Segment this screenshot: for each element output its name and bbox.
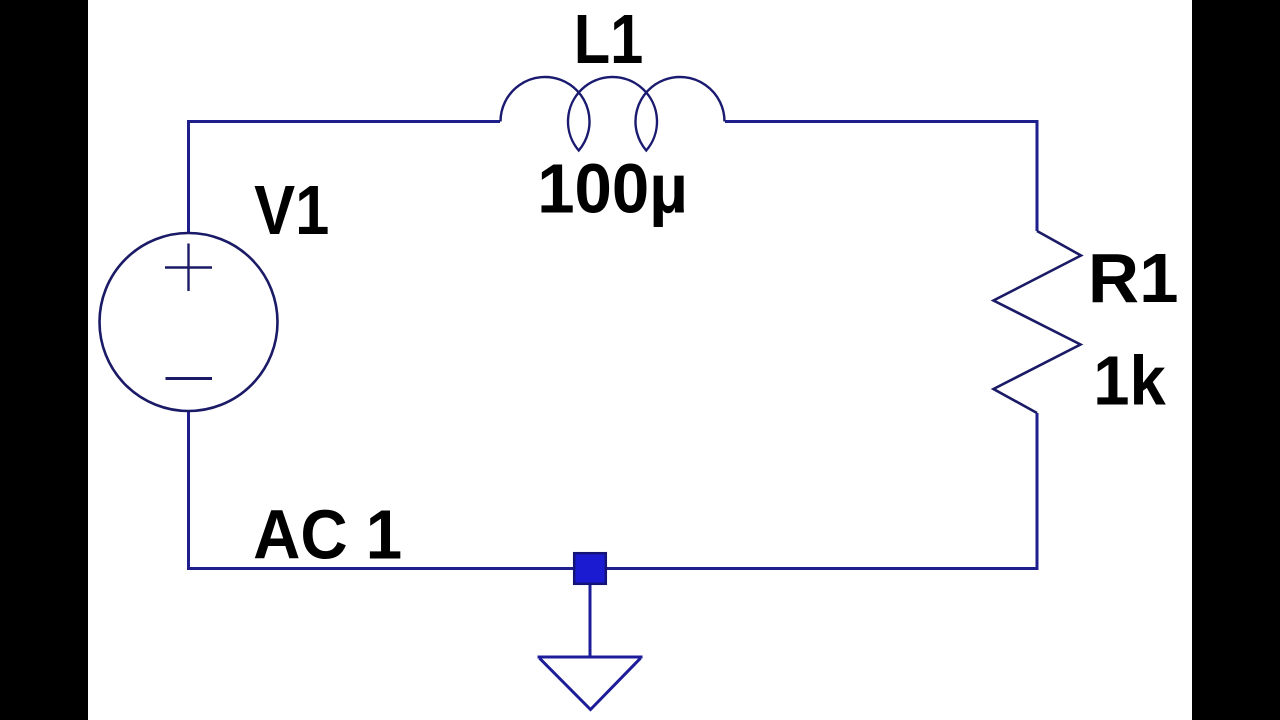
left black pillar [0,0,88,720]
svg-text:L1: L1 [574,0,644,78]
wire right vertical lower [1036,413,1039,569]
wire left vertical upper [187,120,190,233]
wire right vertical upper [1036,120,1039,231]
ground triangle [538,657,643,710]
right black pillar [1192,0,1280,720]
svg-text:R1: R1 [1088,239,1179,317]
V1 minus sign [166,377,213,380]
svg-text:1k: 1k [1093,342,1166,420]
svg-text:V1: V1 [254,171,329,249]
ground stem [589,585,592,657]
voltage source V1 circle [100,233,278,411]
V1 plus sign [165,244,212,292]
wire bottom [187,567,1039,570]
wire top-left segment [189,120,501,123]
resistor R1 zigzag [994,231,1082,413]
ground node square [574,553,606,584]
wire top-right segment [725,120,1037,123]
svg-text:AC 1: AC 1 [253,496,402,574]
inductor L1 coils [501,77,725,151]
svg-text:100µ: 100µ [537,150,688,228]
wire left vertical lower [187,411,190,569]
